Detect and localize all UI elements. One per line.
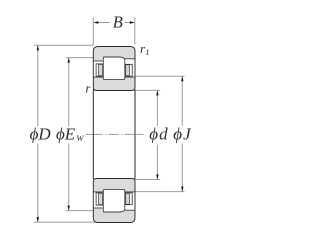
roller top edge redraw	[103, 56, 121, 58]
dimension phiJ vertical line	[181, 76, 183, 191]
cage segment left	[96, 193, 103, 205]
outer ring relief line (right)	[125, 209, 135, 211]
cage segment right	[125, 64, 132, 76]
phiJ extension line bottom	[135, 191, 185, 193]
phiD extension line top	[34, 44, 93, 46]
dimension phiEw vertical line	[68, 58, 70, 211]
section silhouette (outer+inner ring body)	[93, 47, 135, 91]
white cavity left	[94, 192, 103, 207]
arrow phiJ up	[181, 76, 183, 81]
phiEw extension line top	[66, 57, 94, 59]
phiD extension line bottom	[34, 221, 100, 223]
dimension B extension line left	[92, 18, 94, 46]
arrow phid down	[156, 175, 158, 180]
inner ring rib top line (left)	[93, 191, 103, 193]
outer ring rib face line (left)	[93, 60, 103, 62]
roller (white)	[103, 190, 125, 212]
inner ring rib top line (left)	[93, 76, 103, 78]
cage segment left	[96, 64, 103, 76]
outer ring rib face line (left)	[93, 207, 103, 209]
outer ring relief curve over roller corner	[121, 210, 125, 212]
roller top edge redraw	[103, 211, 121, 213]
arrow phiD up	[37, 45, 39, 50]
svg-text:ϕD: ϕD	[30, 124, 52, 143]
arrow B left	[93, 21, 98, 23]
inner ring rib inner step right	[124, 190, 126, 192]
inner ring rib inner step left	[102, 190, 104, 192]
arrow phiEw down	[68, 206, 70, 211]
white cavity left (between outer-ring rib face and inner-ring rib top)	[94, 61, 103, 76]
arrow B right	[130, 21, 135, 23]
phid extension line top	[135, 89, 160, 91]
white cavity right	[125, 192, 134, 209]
outer ring relief curve over roller corner	[121, 57, 125, 59]
cage segment right	[125, 193, 132, 205]
section silhouette mirrored	[93, 179, 135, 223]
gray sliver above relief curve	[121, 57, 125, 59]
white cavity right (between outer-ring relief and inner-ring rib top)	[125, 59, 134, 76]
gray sliver above relief curve	[121, 210, 125, 212]
dimension phiD vertical line	[37, 45, 39, 222]
phid extension line bottom	[135, 179, 160, 181]
dimension B line	[98, 22, 131, 24]
arrow phiEw up	[68, 58, 70, 63]
centerline (shaft axis, dash-dot)	[85, 133, 176, 135]
dimension phid vertical line	[156, 90, 158, 179]
svg-text:W: W	[76, 133, 84, 143]
outer ring relief line (right)	[125, 58, 135, 60]
bore line right connecting sections	[134, 90, 136, 180]
inner ring rib top line (right)	[125, 191, 135, 193]
phiEw extension line bottom	[66, 210, 94, 212]
roller (white)	[103, 57, 125, 79]
bore line left connecting sections	[92, 90, 94, 180]
svg-text:ϕd: ϕd	[149, 124, 169, 143]
arrow phiD down	[37, 217, 39, 222]
inner ring rib inner step right	[124, 77, 126, 79]
svg-text:ϕE: ϕE	[56, 124, 76, 143]
svg-text:B: B	[113, 13, 123, 32]
phiJ extension line top	[135, 75, 185, 77]
dimension B extension line right	[134, 18, 136, 45]
svg-text:ϕJ: ϕJ	[173, 124, 192, 143]
inner ring rib inner step left	[102, 77, 104, 79]
arrow phid up	[156, 90, 158, 95]
inner ring rib top line (right)	[125, 76, 135, 78]
svg-text:1: 1	[145, 47, 149, 57]
arrow phiJ down	[181, 187, 183, 192]
